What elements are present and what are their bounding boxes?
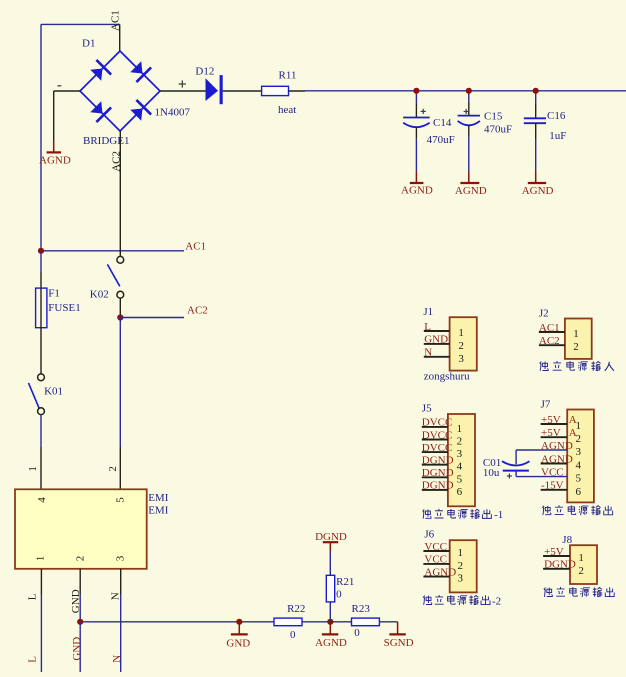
svg-text:C16: C16 <box>547 110 566 122</box>
svg-text:-15V: -15V <box>541 480 564 492</box>
svg-text:VCC: VCC <box>424 541 447 553</box>
svg-text:VCC: VCC <box>541 466 564 478</box>
svg-text:1N4007: 1N4007 <box>155 107 191 119</box>
svg-text:AGND: AGND <box>424 566 456 578</box>
svg-text:DVCC: DVCC <box>422 429 453 441</box>
svg-text:2: 2 <box>107 466 119 472</box>
svg-text:4: 4 <box>36 497 48 503</box>
svg-text:470uF: 470uF <box>484 123 512 135</box>
svg-text:zongshuru: zongshuru <box>424 370 470 382</box>
svg-text:A: A <box>569 414 577 426</box>
svg-text:VCC: VCC <box>424 554 447 566</box>
svg-text:J1: J1 <box>423 306 433 318</box>
svg-text:AC1: AC1 <box>539 322 560 334</box>
svg-text:0: 0 <box>290 629 296 641</box>
svg-text:F1: F1 <box>48 287 60 299</box>
svg-text:+5V: +5V <box>541 427 561 439</box>
svg-text:DGND: DGND <box>422 480 454 492</box>
svg-text:1: 1 <box>457 423 463 435</box>
svg-text:6: 6 <box>457 486 463 498</box>
svg-text:1uF: 1uF <box>549 130 566 142</box>
svg-text:EMI: EMI <box>148 492 169 504</box>
svg-text:L: L <box>26 656 38 663</box>
svg-text:K01: K01 <box>44 385 63 397</box>
svg-text:R22: R22 <box>287 603 305 615</box>
svg-text:GND: GND <box>71 637 83 661</box>
svg-text:1: 1 <box>27 466 39 472</box>
svg-text:GND: GND <box>226 638 250 650</box>
svg-text:AC1: AC1 <box>110 10 122 31</box>
svg-text:4: 4 <box>457 461 463 473</box>
svg-text:5: 5 <box>457 473 463 485</box>
svg-text:A: A <box>569 427 577 439</box>
svg-text:1: 1 <box>578 552 584 564</box>
svg-text:DGND: DGND <box>422 467 454 479</box>
svg-text:AGND: AGND <box>401 184 433 196</box>
svg-text:AC2: AC2 <box>187 305 208 317</box>
svg-text:AGND: AGND <box>39 154 71 166</box>
svg-text:AGND: AGND <box>315 637 347 649</box>
svg-text:6: 6 <box>576 486 582 498</box>
svg-text:1: 1 <box>458 327 464 339</box>
svg-text:L: L <box>424 321 431 333</box>
svg-text:D1: D1 <box>82 38 95 50</box>
svg-text:J6: J6 <box>424 528 434 540</box>
svg-text:R21: R21 <box>336 576 354 588</box>
svg-text:AGND: AGND <box>541 453 573 465</box>
svg-text:DVCC: DVCC <box>422 417 453 429</box>
svg-text:N: N <box>424 347 432 359</box>
svg-text:C14: C14 <box>433 117 452 129</box>
svg-text:AGND: AGND <box>541 440 573 452</box>
svg-text:BRIDGE1: BRIDGE1 <box>83 135 129 147</box>
svg-text:AC1: AC1 <box>185 240 206 252</box>
svg-text:N: N <box>110 592 122 600</box>
svg-text:10u: 10u <box>483 467 500 479</box>
svg-text:R11: R11 <box>279 69 297 81</box>
svg-text:2: 2 <box>573 341 579 353</box>
svg-text:1: 1 <box>458 547 464 559</box>
svg-text:DGND: DGND <box>315 531 347 543</box>
svg-text:2: 2 <box>74 556 86 562</box>
svg-text:C15: C15 <box>484 111 503 123</box>
svg-text:J2: J2 <box>539 308 549 320</box>
svg-text:GND: GND <box>424 334 448 346</box>
svg-text:AC2: AC2 <box>110 151 122 172</box>
svg-text:J8: J8 <box>562 534 572 546</box>
svg-text:3: 3 <box>114 555 126 561</box>
svg-text:5: 5 <box>115 497 127 503</box>
svg-text:FUSE1: FUSE1 <box>48 302 80 314</box>
svg-text:3: 3 <box>458 573 464 585</box>
svg-text:1: 1 <box>573 328 579 340</box>
svg-text:EMI: EMI <box>148 504 169 516</box>
svg-text:DVCC: DVCC <box>422 442 453 454</box>
svg-text:-2: -2 <box>492 595 501 607</box>
svg-text:DGND: DGND <box>544 559 576 571</box>
svg-text:2: 2 <box>458 560 464 572</box>
svg-text:3: 3 <box>576 446 582 458</box>
svg-text:2: 2 <box>578 565 584 577</box>
svg-text:3: 3 <box>458 353 464 365</box>
svg-text:5: 5 <box>576 473 582 485</box>
svg-text:AGND: AGND <box>522 185 554 197</box>
svg-text:1: 1 <box>34 556 46 562</box>
svg-text:N: N <box>111 655 123 663</box>
svg-text:2: 2 <box>458 340 464 352</box>
svg-text:-1: -1 <box>494 509 503 521</box>
svg-text:GND: GND <box>70 589 82 613</box>
svg-text:SGND: SGND <box>384 637 414 649</box>
svg-text:K02: K02 <box>90 289 109 301</box>
svg-text:0: 0 <box>336 589 342 601</box>
svg-text:470uF: 470uF <box>427 134 455 146</box>
svg-text:DGND: DGND <box>422 455 454 467</box>
svg-text:R23: R23 <box>352 603 371 615</box>
svg-text:0: 0 <box>354 627 360 639</box>
svg-text:D12: D12 <box>195 66 214 78</box>
svg-text:J5: J5 <box>422 403 432 415</box>
svg-text:2: 2 <box>457 436 463 448</box>
svg-text:L: L <box>26 593 38 600</box>
svg-text:+5V: +5V <box>541 414 561 426</box>
svg-text:J7: J7 <box>541 399 551 411</box>
svg-text:3: 3 <box>457 448 463 460</box>
svg-text:+5V: +5V <box>544 546 564 558</box>
svg-text:4: 4 <box>576 460 582 472</box>
svg-text:heat: heat <box>278 104 296 116</box>
svg-text:AGND: AGND <box>455 185 487 197</box>
svg-text:AC2: AC2 <box>539 335 560 347</box>
